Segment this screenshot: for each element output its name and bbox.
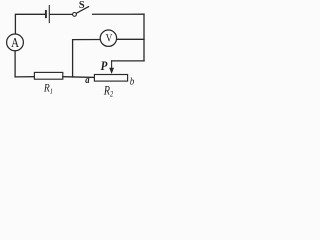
ammeter A circle bbox=[7, 34, 24, 51]
svg-text:A: A bbox=[11, 35, 19, 51]
battery B1 negative plate bbox=[45, 11, 47, 17]
switch S pivot circle bbox=[73, 13, 77, 17]
voltmeter V circle bbox=[100, 30, 116, 46]
resistor R1 body bbox=[34, 72, 62, 79]
wire battery to switch bbox=[50, 13, 72, 15]
svg-text:V: V bbox=[106, 31, 113, 44]
switch S blade bbox=[76, 7, 88, 14]
wiper P shaft bbox=[111, 61, 113, 69]
wiper P arrowhead bbox=[109, 68, 114, 74]
battery B1 positive plate bbox=[48, 6, 50, 23]
rheostat R2 body bbox=[94, 75, 127, 82]
svg-text:a: a bbox=[85, 74, 89, 86]
wire switch to top-right corner bbox=[93, 13, 144, 15]
svg-text:b: b bbox=[130, 76, 135, 88]
svg-text:R1: R1 bbox=[43, 83, 53, 95]
svg-text:S: S bbox=[79, 0, 85, 11]
wire R1 to R2 bbox=[63, 76, 95, 79]
svg-text:R2: R2 bbox=[103, 85, 113, 99]
wire right vertical bbox=[143, 14, 145, 61]
wire top-left corner to battery bbox=[15, 14, 44, 34]
wire bottom-left to R1 bbox=[15, 76, 34, 78]
wire voltmeter left down to bottom node bbox=[73, 40, 101, 78]
wire voltmeter right bbox=[116, 38, 144, 40]
wire ammeter to bottom-left corner bbox=[14, 51, 16, 77]
svg-text:P: P bbox=[101, 58, 108, 73]
wire wiper horizontal bbox=[112, 60, 144, 62]
